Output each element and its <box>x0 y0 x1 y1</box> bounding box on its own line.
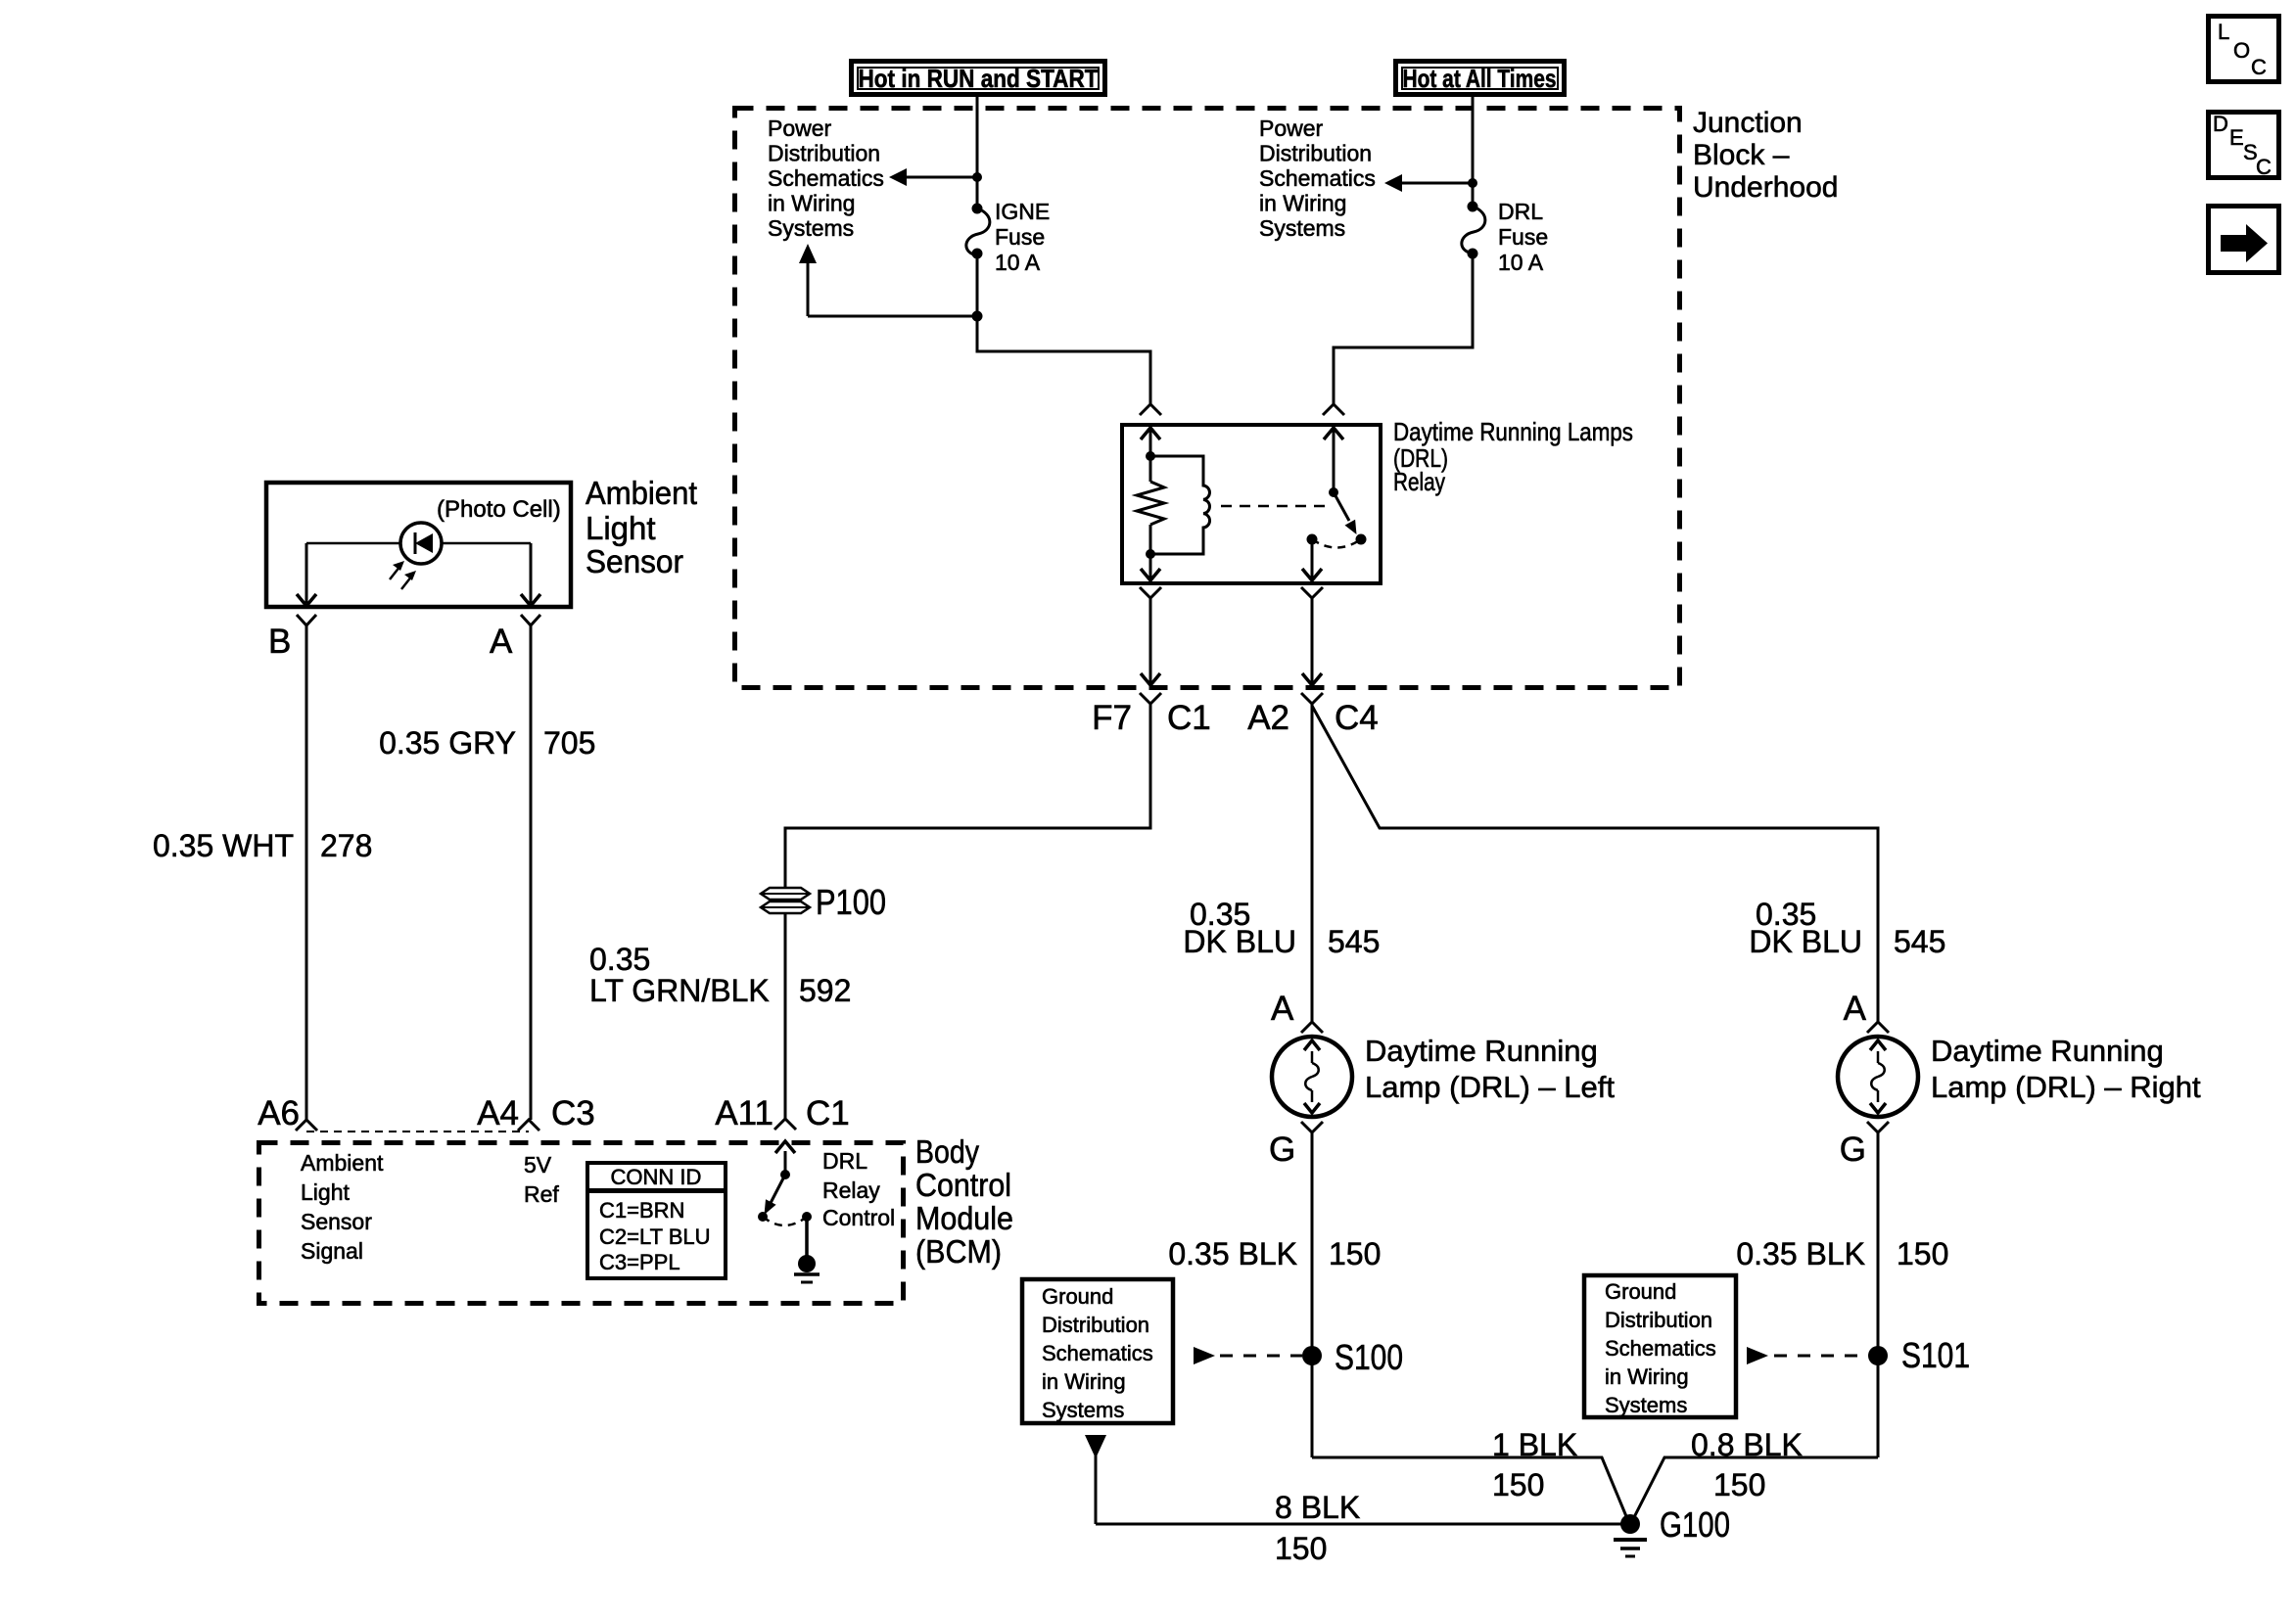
svg-text:Control: Control <box>822 1205 895 1230</box>
splice S101 <box>1868 1346 1888 1365</box>
svg-text:C2=LT BLU: C2=LT BLU <box>599 1224 711 1249</box>
branch wire to right lamp <box>1312 706 1878 1022</box>
connector Y below relay coil pin <box>1140 587 1161 598</box>
svg-text:Schematics: Schematics <box>1042 1341 1153 1365</box>
svg-text:Ambient: Ambient <box>301 1150 384 1176</box>
svg-text:1 BLK: 1 BLK <box>1492 1427 1577 1462</box>
lamp DRL left <box>1272 1037 1352 1117</box>
svg-text:150: 150 <box>1329 1236 1381 1271</box>
svg-text:G: G <box>1269 1131 1295 1169</box>
svg-text:C4: C4 <box>1335 699 1379 737</box>
svg-text:Daytime Running Lamps: Daytime Running Lamps <box>1393 417 1633 446</box>
svg-text:Relay: Relay <box>1393 467 1445 496</box>
light arrows <box>390 561 416 589</box>
switch pivot dot <box>1329 487 1338 497</box>
wire A to BCM A4 <box>530 625 533 1120</box>
svg-text:Lamp (DRL) – Right: Lamp (DRL) – Right <box>1931 1070 2201 1104</box>
svg-text:G100: G100 <box>1660 1504 1730 1545</box>
connector Y below sensor pin A <box>521 615 540 625</box>
svg-text:Distribution: Distribution <box>1259 141 1372 166</box>
relay output wire with down arrow <box>1302 539 1322 583</box>
svg-text:0.8 BLK: 0.8 BLK <box>1691 1427 1803 1462</box>
svg-text:A4: A4 <box>477 1094 519 1132</box>
dashed internal link A6-A4 <box>306 1131 529 1132</box>
svg-text:Fuse: Fuse <box>1498 224 1548 250</box>
switch arm with arrowhead <box>1334 492 1357 534</box>
node dot below IGNE fuse <box>972 311 983 322</box>
wire from DRL fuse to relay switch pin <box>1334 254 1473 404</box>
svg-text:LT GRN/BLK: LT GRN/BLK <box>589 973 770 1008</box>
svg-text:10 A: 10 A <box>1498 250 1544 275</box>
ambient light sensor signal note <box>301 1150 384 1264</box>
svg-text:S101: S101 <box>1901 1335 1970 1375</box>
connector Y right lamp bottom <box>1867 1122 1889 1132</box>
sensor pin B internal wire with down arrow <box>297 543 316 606</box>
svg-text:Signal: Signal <box>301 1238 363 1264</box>
connector Y below sensor pin B <box>297 615 316 625</box>
internal sensor wire <box>306 542 531 545</box>
power distribution note (right) <box>1259 115 1376 241</box>
wire right lamp to ground bus <box>1877 1132 1880 1457</box>
connector chevron right lamp top <box>1867 1022 1889 1033</box>
svg-text:Schematics: Schematics <box>1605 1336 1716 1361</box>
dashed reference arrow to S100 <box>1194 1347 1302 1364</box>
ground G100 <box>1614 1504 1730 1556</box>
svg-text:0.35 WHT: 0.35 WHT <box>153 828 294 863</box>
svg-text:Sensor: Sensor <box>301 1209 372 1234</box>
svg-text:in Wiring: in Wiring <box>1042 1369 1126 1394</box>
svg-text:Schematics: Schematics <box>768 165 884 191</box>
photo cell circle <box>400 523 442 564</box>
BCM driver arrow up at A11 <box>775 1141 795 1172</box>
left lamp label <box>1365 1034 1615 1104</box>
wire label 0.35 LT GRN/BLK 592 <box>589 942 851 1008</box>
svg-text:545: 545 <box>1894 924 1945 959</box>
CONN ID table <box>587 1163 726 1278</box>
svg-text:Sensor: Sensor <box>586 543 683 579</box>
svg-text:Systems: Systems <box>1042 1398 1124 1422</box>
wire B to BCM A6 <box>305 625 308 1120</box>
node dot coil bottom <box>1146 549 1155 559</box>
fuse IGNE 10 A <box>966 199 1050 275</box>
Hot in RUN and START tag box <box>852 62 1105 95</box>
arrow up to power distribution systems (left) <box>799 244 977 316</box>
relay switch pin wire with up arrow <box>1324 425 1343 492</box>
svg-text:C: C <box>2256 155 2272 179</box>
connector chevron left lamp top <box>1301 1022 1323 1033</box>
svg-text:IGNE: IGNE <box>995 199 1050 224</box>
ground distribution note box (right) <box>1584 1275 1736 1417</box>
svg-text:Distribution: Distribution <box>768 141 880 166</box>
svg-text:Fuse: Fuse <box>995 224 1045 250</box>
dashed reference arrow to S101 <box>1747 1347 1868 1364</box>
BCM label <box>915 1133 1013 1270</box>
resistor (relay) <box>1137 456 1164 554</box>
svg-text:150: 150 <box>1897 1236 1948 1271</box>
dashed actuation link <box>1221 505 1329 508</box>
wire relay output to junction block edge <box>1302 598 1322 688</box>
Hot at All Times tag box <box>1396 62 1565 95</box>
dashed travel arc <box>1312 539 1361 548</box>
svg-text:Systems: Systems <box>1605 1393 1687 1417</box>
svg-text:Lamp (DRL) – Left: Lamp (DRL) – Left <box>1365 1070 1615 1104</box>
svg-text:545: 545 <box>1328 924 1380 959</box>
connector P100 <box>761 882 886 922</box>
node dot coil top <box>1146 451 1155 461</box>
svg-text:P100: P100 <box>816 882 886 922</box>
LOC reference box <box>2209 17 2279 82</box>
svg-text:O: O <box>2233 38 2250 63</box>
connector Y below relay switch output <box>1301 587 1323 598</box>
svg-text:0.35 BLK: 0.35 BLK <box>1736 1236 1865 1271</box>
svg-text:D: D <box>2213 112 2228 136</box>
wire label 0.8 BLK 150 <box>1691 1427 1803 1502</box>
svg-text:DK BLU: DK BLU <box>1183 924 1296 959</box>
svg-text:A6: A6 <box>258 1094 300 1132</box>
wire label 0.35 BLK 150 (left) <box>1168 1236 1381 1271</box>
splice S100 <box>1302 1346 1322 1365</box>
8 BLK ground bus wire <box>1096 1523 1630 1526</box>
wire label 0.35 WHT 278 <box>153 828 372 863</box>
wire P100 to BCM pin A11 <box>784 913 787 1119</box>
svg-text:0.35 GRY: 0.35 GRY <box>379 725 516 761</box>
wire from IGNE fuse to relay coil pin <box>977 254 1150 404</box>
svg-text:150: 150 <box>1275 1531 1327 1566</box>
wire relay coil pin to junction block edge <box>1141 598 1160 688</box>
svg-text:Relay: Relay <box>822 1178 880 1203</box>
svg-text:C1: C1 <box>806 1094 850 1132</box>
svg-text:Block –: Block – <box>1693 139 1790 171</box>
svg-text:Systems: Systems <box>768 215 854 241</box>
node dot at DRL feed <box>1468 178 1477 188</box>
svg-text:Distribution: Distribution <box>1605 1308 1712 1332</box>
svg-text:CONN ID: CONN ID <box>611 1165 702 1189</box>
svg-text:5V: 5V <box>524 1152 552 1178</box>
svg-text:A: A <box>490 623 513 661</box>
svg-text:C1=BRN: C1=BRN <box>599 1198 684 1223</box>
wire label 1 BLK 150 <box>1492 1427 1577 1502</box>
BCM dashed outline <box>259 1143 904 1304</box>
svg-text:C1: C1 <box>1167 699 1211 737</box>
svg-text:150: 150 <box>1713 1467 1765 1502</box>
DESC reference box <box>2209 112 2279 179</box>
svg-text:E: E <box>2229 125 2244 150</box>
relay coil winding <box>1150 456 1210 554</box>
svg-text:Ambient: Ambient <box>586 475 697 511</box>
node dot at IGNE feed <box>972 172 982 182</box>
photo diode <box>415 532 433 554</box>
svg-text:C3=PPL: C3=PPL <box>599 1250 680 1274</box>
wire label 8 BLK 150 <box>1275 1490 1360 1566</box>
svg-text:DK BLU: DK BLU <box>1749 924 1862 959</box>
svg-text:Hot at All Times: Hot at All Times <box>1403 64 1557 93</box>
svg-text:705: 705 <box>543 725 595 761</box>
5V Ref note <box>524 1152 559 1207</box>
connector Y left lamp bottom <box>1301 1122 1323 1132</box>
wire F7/C1 down-left to P100 <box>785 704 1150 888</box>
wire label 0.35 GRY 705 <box>379 725 595 761</box>
svg-text:Body: Body <box>915 1133 979 1170</box>
ground distribution note box (left) <box>1022 1279 1173 1423</box>
svg-text:B: B <box>268 623 291 661</box>
svg-text:0.35: 0.35 <box>589 942 650 977</box>
svg-text:A: A <box>1271 990 1294 1028</box>
svg-text:Ground: Ground <box>1042 1284 1113 1309</box>
svg-text:Daytime Running: Daytime Running <box>1365 1034 1598 1068</box>
svg-text:C3: C3 <box>551 1094 595 1132</box>
right lamp ground wire into G100 <box>1632 1457 1878 1521</box>
relay label <box>1393 417 1633 496</box>
sensor label <box>586 475 697 579</box>
wire label 0.35 BLK 150 (right) <box>1736 1236 1948 1271</box>
left lamp ground wire into G100 <box>1312 1457 1628 1521</box>
relay coil pin lower wire with down arrow <box>1141 554 1160 583</box>
dashed travel arc (BCM switch) <box>763 1217 807 1225</box>
svg-text:Systems: Systems <box>1259 215 1345 241</box>
connector Y below junction block at A2/C4 <box>1301 693 1323 704</box>
svg-text:G: G <box>1840 1131 1866 1169</box>
svg-text:Ground: Ground <box>1605 1279 1676 1304</box>
BCM internal ground <box>794 1217 820 1282</box>
fuse DRL 10 A <box>1462 199 1548 275</box>
wire arrow to power distribution (right) <box>1384 174 1473 192</box>
svg-text:Ref: Ref <box>524 1181 559 1207</box>
wire left lamp to ground bus <box>1311 1132 1314 1457</box>
svg-text:in Wiring: in Wiring <box>768 191 855 216</box>
lamp DRL right <box>1838 1037 1918 1117</box>
relay U1 box <box>1122 425 1381 583</box>
svg-text:A11: A11 <box>715 1094 773 1132</box>
right lamp label <box>1931 1034 2201 1104</box>
svg-text:DRL: DRL <box>822 1148 867 1174</box>
svg-text:Distribution: Distribution <box>1042 1313 1149 1337</box>
BCM switch arm with arrowhead <box>765 1175 786 1215</box>
svg-text:C: C <box>2251 55 2267 79</box>
svg-text:Module: Module <box>915 1200 1013 1236</box>
relay coil pin wire with up arrow <box>1141 425 1160 456</box>
power distribution note (left) <box>768 115 884 241</box>
svg-text:Daytime Running: Daytime Running <box>1931 1034 2164 1068</box>
svg-text:8 BLK: 8 BLK <box>1275 1490 1360 1525</box>
sensor pin A internal wire with down arrow <box>521 543 540 606</box>
wire label 0.35 DK BLU 545 (left) <box>1183 897 1380 959</box>
switch arm end dot <box>1356 534 1367 545</box>
wire label 0.35 DK BLU 545 (right) <box>1749 897 1945 959</box>
connector chevron at relay coil pin <box>1140 404 1161 415</box>
BCM switch pivot dot <box>780 1170 790 1179</box>
BCM switch NO dot <box>758 1212 768 1222</box>
wire from Hot in RUN down to IGNE fuse <box>976 94 979 208</box>
wire arrow to power distribution (left) <box>889 168 977 186</box>
arrow down from left ground note box <box>1085 1435 1106 1524</box>
svg-text:150: 150 <box>1492 1467 1544 1502</box>
wire A2/C4 down to left lamp <box>1311 704 1314 1022</box>
svg-text:(BCM): (BCM) <box>915 1233 1002 1270</box>
svg-text:L: L <box>2218 20 2229 44</box>
connector Y below junction block at F7/C1 <box>1140 693 1161 704</box>
svg-text:A2: A2 <box>1247 699 1289 737</box>
svg-text:in Wiring: in Wiring <box>1259 191 1346 216</box>
svg-text:Control: Control <box>915 1167 1011 1203</box>
svg-text:Power: Power <box>768 115 832 141</box>
connector chevron at relay switch pin <box>1323 404 1344 415</box>
connector chevron at BCM pin A11 <box>774 1119 796 1130</box>
svg-text:S100: S100 <box>1335 1337 1403 1377</box>
switch NO contact dot <box>1307 534 1318 545</box>
BCM switch common dot <box>802 1212 812 1222</box>
svg-text:F7: F7 <box>1092 699 1132 737</box>
svg-text:Schematics: Schematics <box>1259 165 1376 191</box>
svg-text:10 A: 10 A <box>995 250 1041 275</box>
svg-text:Hot in RUN and START: Hot in RUN and START <box>859 64 1099 93</box>
svg-text:Light: Light <box>301 1179 350 1205</box>
svg-text:Light: Light <box>586 510 656 546</box>
DRL relay control note <box>822 1148 895 1230</box>
svg-text:Power: Power <box>1259 115 1324 141</box>
svg-text:in Wiring: in Wiring <box>1605 1364 1689 1389</box>
svg-text:Junction: Junction <box>1693 107 1803 139</box>
Ambient Light Sensor box <box>266 483 571 607</box>
svg-text:592: 592 <box>799 973 851 1008</box>
connector chevron at BCM pin A6 <box>296 1120 317 1131</box>
svg-text:(Photo Cell): (Photo Cell) <box>437 496 561 523</box>
svg-text:0.35 BLK: 0.35 BLK <box>1168 1236 1297 1271</box>
svg-text:278: 278 <box>320 828 372 863</box>
next-page arrow box <box>2209 207 2279 273</box>
junction block label <box>1693 107 1838 204</box>
svg-text:Underhood: Underhood <box>1693 171 1838 204</box>
svg-text:DRL: DRL <box>1498 199 1543 224</box>
connector chevron at BCM pin A4 <box>518 1120 539 1131</box>
svg-text:A: A <box>1844 990 1867 1028</box>
Junction Block - Underhood dashed outline <box>735 109 1680 688</box>
wire from Hot at All Times down to DRL fuse <box>1472 94 1475 207</box>
